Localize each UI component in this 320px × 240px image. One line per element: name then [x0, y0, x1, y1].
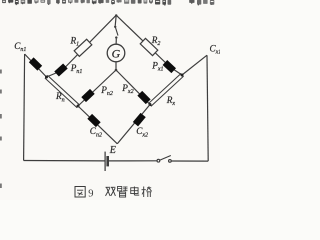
- svg-text:E: E: [109, 145, 116, 156]
- binding post P_x2: [137, 91, 150, 104]
- resistor R1: [74, 39, 92, 56]
- binding post P_x1: [163, 60, 176, 73]
- switch S2 (battery switch): [157, 159, 160, 162]
- resistor R_x (bar): [149, 74, 183, 106]
- wire: apex down to switch: [115, 15, 116, 26]
- node J1: [45, 76, 48, 79]
- switch S1 (galvanometer switch): [114, 26, 116, 28]
- galvanometer U1 (G): [107, 44, 125, 62]
- cropped text line at top edge: [2, 0, 214, 6]
- binding post C_n1: [29, 57, 42, 70]
- cropped text fragments at left margin: [0, 70, 2, 74]
- wire: right vertical: [207, 55, 208, 161]
- node J2: [77, 105, 80, 108]
- wire: bottom right: [171, 160, 208, 162]
- node J1r: [181, 74, 184, 77]
- wire: right ratio arm (apex to right rail): [116, 15, 170, 67]
- node B (junction below G): [115, 69, 118, 72]
- battery E: [104, 152, 106, 171]
- binding post P_n2: [81, 89, 94, 102]
- wire: bottom middle (battery to switch): [109, 160, 157, 162]
- wire: left rail top segment: [25, 54, 47, 77]
- wire: inner right arm (node B to right rail): [116, 70, 150, 105]
- resistor R_n (bar): [45, 76, 79, 108]
- caption: 图 9 双臂电桥: [75, 187, 85, 198]
- wire: inner left arm (node B to left rail): [78, 70, 116, 106]
- wire: left rail bottom segment: [78, 106, 117, 144]
- wire: left vertical: [24, 54, 25, 161]
- wire: right rail bottom segment: [117, 105, 150, 144]
- wire: left ratio arm (apex to left rail): [62, 15, 116, 70]
- wire: bottom left (to battery): [24, 160, 105, 162]
- binding post P_n1: [54, 63, 67, 76]
- binding post C_n2: [87, 114, 100, 127]
- svg-text:9: 9: [88, 188, 93, 199]
- svg-text:G: G: [112, 47, 121, 61]
- wire: galvanometer to node B: [115, 62, 117, 70]
- binding post C_x2: [133, 113, 146, 127]
- node: apex junction: [115, 14, 117, 16]
- wire: switch to galvanometer: [115, 39, 117, 45]
- node J2r: [149, 103, 152, 106]
- resistor R2: [140, 38, 158, 55]
- wire: right rail top segment: [182, 55, 207, 75]
